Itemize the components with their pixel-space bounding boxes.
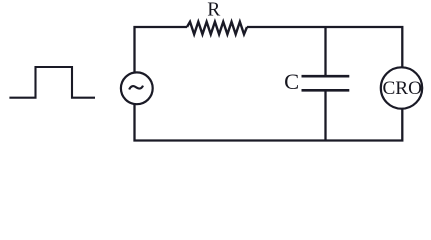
wire: capacitor branch bottom [324,90,326,140]
wire: top left segment [135,27,188,73]
input pulse waveform [9,67,95,98]
AC source circle [121,72,153,104]
svg-text:CRO: CRO [382,78,422,99]
AC source tilde [129,86,143,90]
wire: top right segment [247,27,402,68]
svg-text:R: R [207,0,220,21]
wire: capacitor branch top [324,27,326,76]
svg-text:C: C [284,69,299,94]
resistor R (zigzag) [187,22,247,35]
oscilloscope CRO body [381,67,422,108]
wire: bottom rail [135,104,403,141]
capacitor C plates [302,76,350,90]
